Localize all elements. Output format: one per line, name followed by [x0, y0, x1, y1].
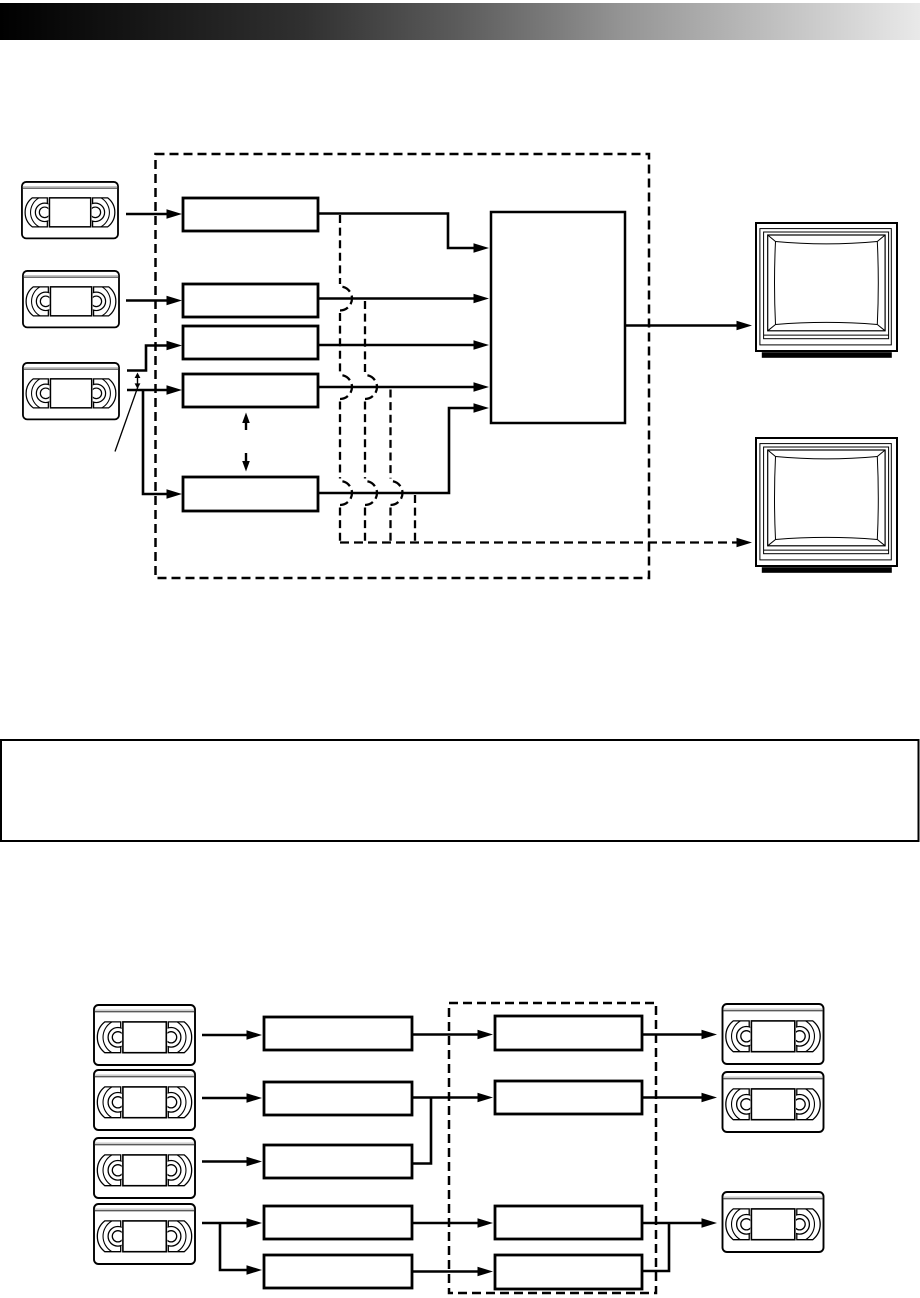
wire cassette3 upper link to A3 (elbow) [127, 346, 168, 371]
dashed enclosure (recording VCR) [449, 1003, 656, 1293]
wire C4 to D4 cassette [642, 1222, 703, 1225]
box A4 [183, 374, 318, 407]
arrowhead into B4 [247, 1218, 263, 1228]
box A1 [183, 198, 318, 231]
wire A2 to switcher [318, 297, 475, 300]
wire B1 to C1 [412, 1033, 479, 1036]
wire C2 to D2 cassette [642, 1096, 703, 1099]
wire A3 to switcher [318, 344, 475, 347]
box B2 [264, 1082, 412, 1115]
target cassette D2 [723, 1072, 824, 1132]
wire A4 to switcher [318, 386, 475, 389]
wire C1 to D1 cassette [642, 1033, 703, 1036]
arrowhead into A2 [167, 296, 183, 306]
arrowhead into B1 [247, 1030, 263, 1040]
arrowhead into A4 [167, 385, 183, 395]
TV monitor 1 [756, 223, 897, 358]
switcher big box [491, 212, 625, 423]
header gradient bar [0, 3, 920, 40]
hop arc v2 at line4 [365, 375, 377, 399]
wire A5 to switcher (elbow up) [318, 408, 475, 493]
box C2 [495, 1081, 642, 1114]
arrowhead into switcher in5 [474, 403, 490, 413]
arrowhead into switcher in4 [474, 382, 490, 392]
box A5 [183, 477, 318, 511]
arrowhead into A5 [167, 489, 183, 499]
small double arrow between cassette3 links [135, 373, 141, 389]
wire B-cassette4 to B4 [202, 1222, 248, 1225]
arrowhead into C4 [478, 1218, 494, 1228]
wire B4 to C4 [412, 1222, 479, 1225]
arrowhead into C1 [478, 1030, 494, 1040]
wire branch down to A5 [143, 390, 168, 494]
hop arc v2 at line5 [365, 481, 377, 505]
dashed output line to TV2 [340, 541, 743, 543]
hop arc v1 at line5 [340, 481, 352, 505]
arrowhead into D2 [702, 1093, 718, 1103]
dashed enclosure (VCR unit) [156, 154, 650, 578]
wire B2 to C2 [412, 1096, 479, 1099]
hop arc v1 at line2 [340, 287, 352, 311]
arrowhead into D1 [702, 1030, 718, 1040]
arrowhead into C5 [478, 1267, 494, 1277]
source cassette B4 [94, 1204, 195, 1264]
arrowhead into switcher in1 [474, 243, 490, 253]
arrowhead into TV2 [737, 538, 753, 548]
arrowhead into A1 [167, 209, 183, 219]
wire cassette2 to A2 [126, 299, 168, 302]
arrowhead into TV1 [737, 321, 753, 331]
box B3 [264, 1145, 412, 1178]
arrowhead into switcher in3 [474, 340, 490, 350]
box C4 [495, 1206, 642, 1239]
arrowhead into B5 [247, 1265, 263, 1275]
TV monitor 2 [756, 438, 897, 573]
wire branch down to B5 [220, 1223, 248, 1270]
note frame rectangle [1, 740, 919, 841]
target cassette D1 [723, 1004, 824, 1064]
box B4 [264, 1206, 412, 1239]
arrowhead into switcher in2 [474, 294, 490, 304]
source cassette B1 [94, 1005, 195, 1065]
wire A1 to switcher (elbow) [318, 214, 475, 249]
wire C5 up joining C4 output (elbow) [642, 1223, 669, 1271]
box B5 [264, 1255, 412, 1288]
wire B-cassette1 to B1 [202, 1034, 248, 1037]
arrowhead into D4 [702, 1218, 718, 1228]
exchange arrows between A4 and A5 [242, 413, 250, 472]
box A2 [183, 284, 318, 317]
arrowhead into C2 [478, 1093, 494, 1103]
hop arc v3 at line5 [391, 481, 403, 505]
arrowhead into B2 [247, 1093, 263, 1103]
source cassette B3 [94, 1138, 195, 1198]
dashed bus line v2 [364, 301, 366, 373]
wire B-cassette2 to B2 [202, 1097, 248, 1100]
wire B3 up to B2 output (elbow) [412, 1098, 431, 1164]
hop arc v1 at line4 [340, 375, 352, 399]
box A3 [183, 326, 318, 359]
dashed bus line v3 [389, 390, 391, 479]
arrowhead into A3 [167, 341, 183, 351]
source cassette 2 [23, 271, 119, 327]
wire B-cassette3 to B3 [202, 1160, 248, 1163]
dashed bus line v1 [339, 215, 341, 284]
source cassette B2 [94, 1070, 195, 1130]
box B1 [264, 1017, 412, 1050]
dashed bus line v4 [414, 495, 416, 542]
target cassette D4 [723, 1192, 824, 1252]
source cassette 3 [23, 363, 119, 419]
box C1 [495, 1016, 642, 1050]
wire cassette3 lower link to A4 [127, 389, 168, 392]
arrowhead into B3 [247, 1157, 263, 1167]
source cassette 1 [22, 182, 118, 238]
wire switcher to TV1 [625, 324, 738, 327]
wire B5 to C5 [412, 1270, 479, 1273]
leader diagonal line [115, 387, 138, 452]
box C5 [495, 1255, 642, 1289]
wire cassette1 to A1 [126, 213, 168, 216]
